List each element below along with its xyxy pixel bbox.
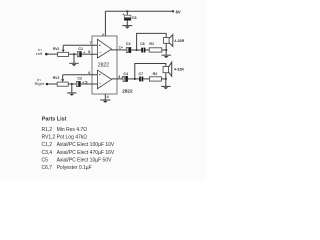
node In Left terminal [45,53,48,56]
svg-text:Right: Right [35,81,45,86]
potentiometer RV1 [53,45,69,56]
ground below speaker1 [162,55,171,58]
node speaker1 junction [165,49,167,51]
wire RV2 wiper to pin 6 [63,74,98,76]
svg-text:RV1: RV1 [53,47,60,51]
node riser2 junction [134,78,136,80]
svg-text:Left: Left [36,51,44,56]
ground below speaker2 [161,86,170,89]
ground below C5 [122,26,132,29]
node 6V terminal dot [172,10,174,12]
wire R2 to junction [161,78,165,80]
wire output1 to C3 [111,49,126,51]
svg-text:4: 4 [107,95,109,99]
svg-text:Pot Log 47kΩ: Pot Log 47kΩ [57,135,88,141]
op-amp A2 triangle [97,70,111,89]
svg-text:R1,2: R1,2 [42,127,53,133]
svg-text:Axial/PC Elect 100µF 10V: Axial/PC Elect 100µF 10V [57,142,115,148]
node C5 tap junction [126,10,128,12]
svg-text:2822: 2822 [122,89,133,94]
svg-text:8: 8 [88,50,90,54]
op-amp U1 IC box [92,36,117,94]
svg-text:C1,2: C1,2 [42,142,53,148]
node pot2 junction [71,83,73,85]
wire input right to RV2 [48,83,57,85]
capacitor C3 [121,42,131,53]
capacitor C1 [77,47,85,57]
wire input left to RV1 [47,53,57,55]
resistor R2 [149,72,161,81]
wire C5 tap [126,11,128,15]
svg-text:5: 5 [85,80,87,84]
capacitor C2 [76,77,84,87]
wire output2 to C4 [112,78,123,80]
parts list [42,117,115,172]
svg-text:C5: C5 [42,157,49,163]
wire C7 to R2 [143,78,149,80]
svg-text:RV2: RV2 [53,76,60,80]
wire C2 to pin 5 [81,83,98,85]
wire C4 to junction [128,78,139,80]
svg-text:7: 7 [90,41,92,45]
wire C5 to ground [126,21,128,26]
svg-text:2: 2 [102,33,104,37]
wire C3 to junction [131,49,141,51]
wire RV1 right to junction [69,53,78,55]
node pot1 junction [73,53,75,55]
svg-text:Parts List: Parts List [42,117,67,123]
svg-text:+: + [122,12,124,16]
svg-text:6: 6 [88,71,90,75]
svg-text:3: 3 [118,75,120,79]
wire speaker2 down to junction [165,73,167,87]
wire junction to ground [71,84,73,93]
node In Right terminal [46,83,49,86]
svg-text:C6,7: C6,7 [42,165,53,171]
wire junction to ground [73,54,75,63]
ground below RV2 [67,93,76,96]
svg-text:4-32R: 4-32R [174,67,184,71]
potentiometer RV2 [53,75,68,86]
capacitor C6 [140,42,145,52]
wire pin4 drop [104,94,106,100]
svg-text:Axial/PC Elect 10µF 50V: Axial/PC Elect 10µF 50V [57,157,113,163]
wire pin2 riser [104,11,106,36]
svg-text:2822: 2822 [98,63,109,69]
svg-text:C3: C3 [126,42,131,46]
capacitor C4 [121,72,128,82]
wire R1 to junction [162,49,166,51]
svg-text:+: + [99,44,101,48]
svg-text:C7: C7 [139,72,144,76]
svg-text:Min Res 4.7Ω: Min Res 4.7Ω [57,127,88,133]
wire speaker1 down to junction [165,43,167,55]
wire RV2 right to junction [68,83,76,85]
wire riser2 up [135,64,166,79]
capacitor C5 [122,12,136,20]
svg-text:Polyester 0.1µF: Polyester 0.1µF [57,165,92,171]
svg-text:R2: R2 [153,72,158,76]
svg-text:+: + [99,73,101,77]
svg-text:C3,4: C3,4 [42,150,53,156]
wire riser1 up [137,33,167,50]
resistor R1 [149,42,162,52]
wire +6V power rail [105,10,172,12]
ground below pin 4 [100,100,110,103]
op-amp A1 triangle [97,39,111,58]
node speaker2 junction [165,78,167,80]
wire RV1 wiper to pin 7 [63,44,97,46]
svg-text:RV1,2: RV1,2 [42,135,56,141]
node riser1 junction [136,49,138,51]
svg-text:6V: 6V [176,9,181,14]
wire C6 to R1 [145,49,149,51]
svg-text:C6: C6 [140,42,145,46]
svg-text:R1: R1 [149,42,154,46]
capacitor C7 [139,72,144,81]
svg-text:C4: C4 [123,72,128,76]
svg-text:Axial/PC Elect 470µF 16V: Axial/PC Elect 470µF 16V [57,150,115,156]
svg-text:4-32R: 4-32R [174,39,184,43]
wire C1 to pin 8 [82,53,98,55]
speaker LS2 [163,62,184,76]
ground below RV1 [69,63,78,66]
speaker LS1 [163,35,184,47]
svg-text:C5: C5 [132,16,137,20]
svg-text:+: + [121,46,123,50]
